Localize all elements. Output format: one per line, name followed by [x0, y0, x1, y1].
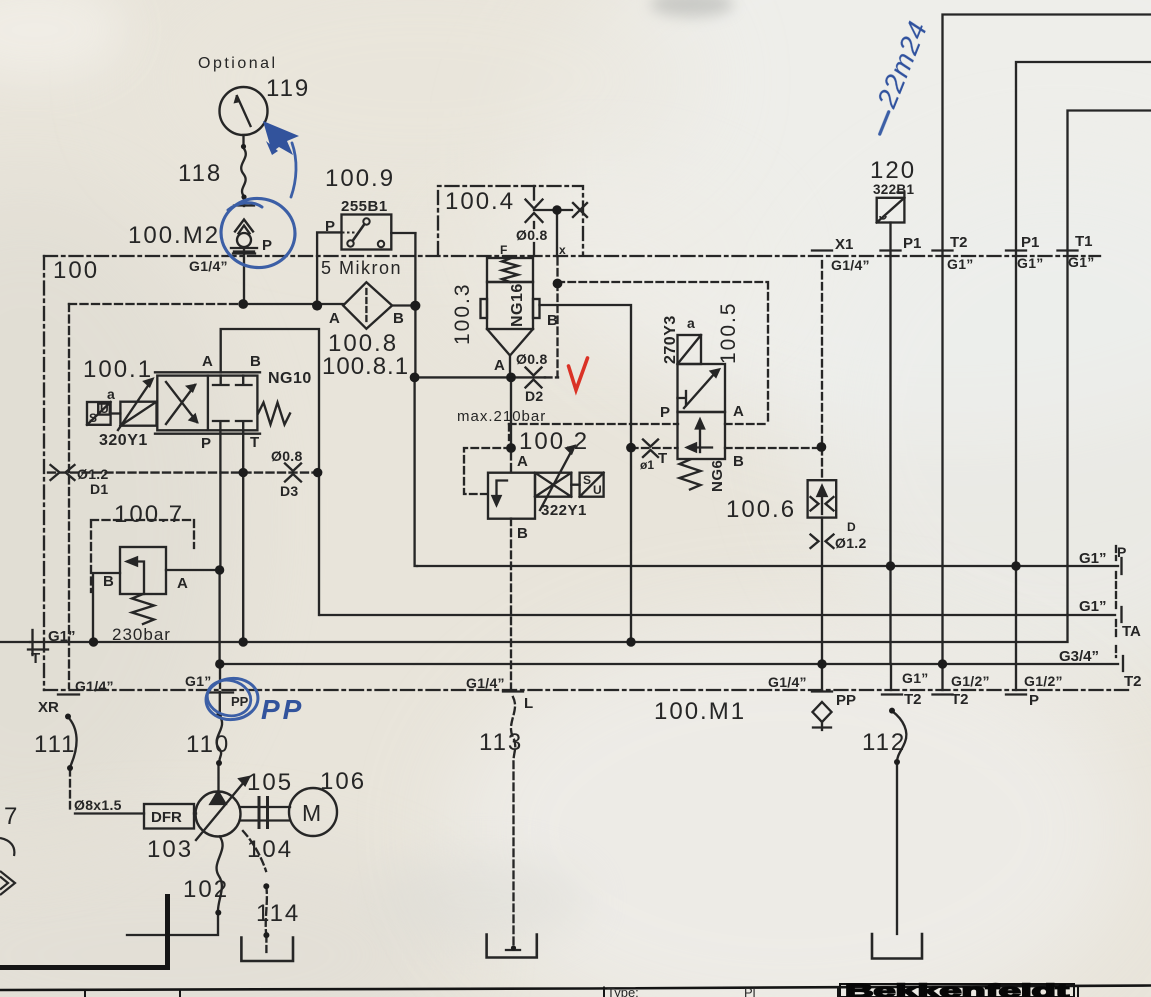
svg-text:D3: D3: [280, 483, 299, 499]
svg-text:Ø0.8: Ø0.8: [516, 351, 548, 367]
svg-text:100.M2: 100.M2: [128, 222, 220, 249]
svg-text:100.7: 100.7: [114, 501, 184, 528]
svg-text:F: F: [500, 243, 507, 257]
svg-text:255B1: 255B1: [341, 198, 388, 215]
svg-text:G1”: G1”: [947, 256, 974, 272]
svg-text:max.210bar: max.210bar: [457, 408, 546, 425]
svg-text:P: P: [1117, 544, 1127, 560]
svg-text:105: 105: [247, 769, 293, 796]
svg-text:100.5: 100.5: [717, 301, 740, 364]
svg-text:P1: P1: [903, 235, 921, 252]
svg-text:Ø0.8: Ø0.8: [516, 227, 548, 243]
svg-text:P1: P1: [1021, 234, 1039, 251]
svg-text:D: D: [847, 520, 856, 534]
svg-text:NG16: NG16: [509, 283, 526, 327]
svg-text:D1: D1: [90, 481, 109, 497]
svg-text:322Y1: 322Y1: [541, 502, 587, 519]
svg-text:G3/4”: G3/4”: [1059, 648, 1099, 665]
svg-text:T: T: [31, 650, 40, 667]
svg-text:A: A: [733, 403, 744, 420]
svg-text:Ø8x1.5: Ø8x1.5: [74, 797, 122, 813]
svg-text:P: P: [325, 218, 335, 235]
svg-text:102: 102: [183, 876, 229, 903]
svg-text:M: M: [302, 800, 321, 826]
svg-text:T2: T2: [950, 234, 968, 251]
svg-text:Optional: Optional: [198, 55, 278, 72]
svg-text:X1: X1: [835, 236, 853, 253]
svg-text:100.2: 100.2: [519, 428, 589, 455]
svg-text:G1”: G1”: [902, 670, 929, 686]
svg-text:A: A: [177, 575, 188, 592]
svg-text:100.6: 100.6: [726, 496, 796, 523]
svg-text:a: a: [687, 315, 695, 331]
svg-text:S: S: [89, 411, 97, 425]
svg-text:A: A: [202, 353, 213, 370]
svg-text:Ø1.2: Ø1.2: [77, 466, 109, 482]
svg-text:B: B: [250, 353, 261, 370]
svg-text:S: S: [583, 473, 591, 487]
svg-text:A: A: [494, 357, 505, 374]
svg-text:103: 103: [147, 836, 193, 863]
svg-text:111: 111: [34, 731, 76, 758]
svg-text:ø1: ø1: [640, 458, 654, 472]
svg-text:B: B: [517, 525, 528, 542]
svg-text:B: B: [733, 453, 744, 470]
svg-text:100.4: 100.4: [445, 188, 515, 215]
svg-text:G1”: G1”: [48, 628, 76, 645]
svg-text:T: T: [250, 434, 259, 451]
svg-text:G1”: G1”: [1079, 550, 1107, 567]
svg-text:P: P: [1029, 692, 1039, 709]
svg-text:G1”: G1”: [185, 673, 212, 689]
svg-text:P: P: [262, 237, 272, 254]
svg-text:L: L: [524, 695, 533, 712]
svg-text:104: 104: [247, 836, 293, 863]
svg-text:x: x: [559, 243, 566, 257]
svg-text:G1/2”: G1/2”: [1024, 673, 1063, 689]
svg-text:119: 119: [266, 75, 310, 102]
svg-text:PP: PP: [261, 694, 304, 725]
svg-text:100.9: 100.9: [325, 165, 395, 192]
svg-text:B: B: [393, 310, 404, 327]
svg-text:TA: TA: [1122, 623, 1141, 640]
svg-text:DFR: DFR: [151, 809, 182, 826]
svg-text:A: A: [329, 310, 340, 327]
svg-text:270Y3: 270Y3: [662, 315, 679, 364]
svg-text:A: A: [517, 453, 528, 470]
svg-text:100.M1: 100.M1: [654, 698, 746, 725]
svg-text:Ø1.2: Ø1.2: [835, 535, 867, 551]
svg-text:T2: T2: [951, 691, 969, 708]
svg-text:100.1: 100.1: [83, 356, 153, 383]
svg-text:NG10: NG10: [268, 370, 312, 387]
svg-text:320Y1: 320Y1: [99, 432, 148, 449]
svg-text:PP: PP: [231, 694, 249, 709]
svg-text:T1: T1: [1075, 233, 1093, 250]
svg-text:100: 100: [53, 257, 99, 284]
svg-text:118: 118: [178, 160, 222, 187]
svg-text:114: 114: [256, 900, 300, 927]
svg-text:D2: D2: [525, 388, 544, 404]
svg-text:322B1: 322B1: [873, 182, 914, 197]
svg-text:T2: T2: [1124, 673, 1142, 690]
svg-text:112: 112: [862, 729, 906, 756]
svg-text:XR: XR: [38, 699, 59, 716]
svg-text:Bekkenfeldt: Bekkenfeldt: [845, 981, 1069, 997]
svg-text:G1”: G1”: [1079, 598, 1107, 615]
svg-text:G1/2”: G1/2”: [951, 673, 990, 689]
svg-text:100.3: 100.3: [451, 282, 474, 345]
svg-text:G1”: G1”: [1068, 254, 1095, 270]
svg-text:7: 7: [4, 803, 19, 830]
svg-text:Type:: Type:: [607, 985, 639, 997]
svg-text:G1/4”: G1/4”: [768, 674, 807, 690]
svg-text:113: 113: [479, 729, 523, 756]
svg-text:U: U: [593, 483, 602, 497]
svg-text:U: U: [100, 402, 109, 416]
svg-text:PP: PP: [836, 692, 856, 709]
svg-text:B: B: [103, 573, 114, 590]
svg-text:5 Mikron: 5 Mikron: [321, 258, 402, 278]
svg-text:G1/4”: G1/4”: [75, 678, 114, 694]
svg-text:120: 120: [870, 157, 916, 184]
svg-text:G1”: G1”: [1017, 255, 1044, 271]
svg-text:Pl: Pl: [744, 985, 756, 997]
svg-text:P: P: [660, 404, 670, 421]
svg-text:a: a: [107, 386, 115, 402]
svg-text:Ø0.8: Ø0.8: [271, 448, 303, 464]
svg-text:230bar: 230bar: [112, 625, 171, 644]
svg-text:110: 110: [186, 731, 230, 758]
svg-text:T: T: [658, 450, 667, 467]
svg-text:106: 106: [320, 768, 366, 795]
svg-text:G1/4”: G1/4”: [466, 675, 505, 691]
svg-text:NG6: NG6: [709, 460, 726, 492]
svg-text:G1/4”: G1/4”: [831, 257, 870, 273]
svg-text:P: P: [201, 435, 211, 452]
svg-text:B: B: [547, 312, 558, 329]
svg-text:G1/4”: G1/4”: [189, 258, 228, 274]
svg-text:100.8.1: 100.8.1: [322, 353, 409, 380]
svg-text:T2: T2: [904, 691, 922, 708]
